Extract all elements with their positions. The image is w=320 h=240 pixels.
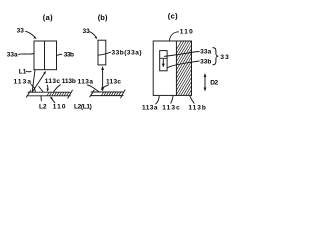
svg-text:L2(L1): L2(L1) xyxy=(74,104,92,111)
hatched strip left edge (c) xyxy=(175,41,177,95)
ray L2 above bar (a) xyxy=(39,87,43,93)
leader 33a (c) xyxy=(164,52,199,57)
leader 113b (a) xyxy=(54,85,61,92)
base bar 110 (b) top line xyxy=(91,91,123,93)
leader arrow from 33 to rect (b) xyxy=(90,32,96,37)
svg-text:L2: L2 xyxy=(39,104,47,111)
svg-text:113b: 113b xyxy=(188,104,206,111)
leader 113c (c) xyxy=(171,96,173,103)
svg-text:33b: 33b xyxy=(200,59,211,66)
leader 113a (c) xyxy=(156,96,159,104)
double arrow between rect and bar (b) xyxy=(102,69,104,89)
leader 113c with arrowhead (b) xyxy=(103,85,109,88)
bar left break slash (a) xyxy=(26,91,30,98)
rect 33 (b) xyxy=(98,40,106,65)
svg-text:33: 33 xyxy=(82,28,90,35)
bar right break slash (a) xyxy=(68,90,73,98)
svg-text:33b(33a): 33b(33a) xyxy=(112,49,142,56)
svg-text:113a: 113a xyxy=(14,78,32,85)
D2 double arrow (c) xyxy=(204,76,206,88)
svg-text:D2: D2 xyxy=(210,80,218,87)
leader arrow from 33 to rect (a) xyxy=(26,31,35,37)
leader 33b(33a) (b) xyxy=(98,52,110,55)
svg-text:L1: L1 xyxy=(19,69,27,76)
svg-text:113a: 113a xyxy=(142,104,158,111)
bar right break slash (b) xyxy=(121,90,125,98)
svg-text:33a: 33a xyxy=(7,51,18,58)
svg-text:(a): (a) xyxy=(43,13,53,22)
base bar 110 (a) top line xyxy=(28,91,70,93)
leader 113c with arrowhead (a) xyxy=(46,85,49,90)
svg-text:113c: 113c xyxy=(45,78,61,85)
small rect 33 inside (c) xyxy=(160,51,167,71)
ray reflected with arrowhead (a) xyxy=(32,73,45,93)
svg-text:110: 110 xyxy=(180,29,193,36)
leader 113a (a) xyxy=(31,85,35,92)
bar hatching (b) xyxy=(102,92,121,95)
svg-text:113c: 113c xyxy=(162,104,180,111)
divider line of rect 33 (a) xyxy=(44,41,46,70)
svg-text:(c): (c) xyxy=(168,12,178,21)
leader 110 (c) xyxy=(169,32,178,41)
svg-text:33: 33 xyxy=(220,54,229,61)
base bar 110 (a) bottom line xyxy=(28,95,70,97)
svg-text:33: 33 xyxy=(17,28,25,35)
svg-text:113a: 113a xyxy=(78,79,94,86)
bar left break slash (b) xyxy=(90,90,94,97)
svg-text:110: 110 xyxy=(53,104,66,111)
svg-text:33a: 33a xyxy=(200,49,212,56)
bar hatching (a) xyxy=(47,92,71,95)
svg-text:33b: 33b xyxy=(64,51,74,58)
divider in small rect (c) xyxy=(160,57,167,59)
leader 33b (c) xyxy=(167,61,199,68)
leader 33b (a) xyxy=(57,53,62,56)
leader L1 (a) xyxy=(26,70,31,72)
base bar 110 (b) bottom line xyxy=(91,95,123,97)
leader 113b (c) xyxy=(190,96,194,103)
substrate box 110 (c) xyxy=(153,41,191,95)
ray L2 below bar (a) xyxy=(40,96,42,101)
ray L1 incident (a) xyxy=(32,70,35,92)
leader 110 arrow (a) xyxy=(51,98,55,103)
leader 33a (a) xyxy=(19,53,34,56)
down arrow inside small rect (c) xyxy=(162,59,164,64)
svg-text:113b: 113b xyxy=(62,78,76,85)
leader 113a (b) xyxy=(88,85,100,92)
svg-text:(b): (b) xyxy=(98,13,108,22)
rect 33 (a) xyxy=(34,41,57,70)
brace for 33 (c) xyxy=(213,48,218,65)
